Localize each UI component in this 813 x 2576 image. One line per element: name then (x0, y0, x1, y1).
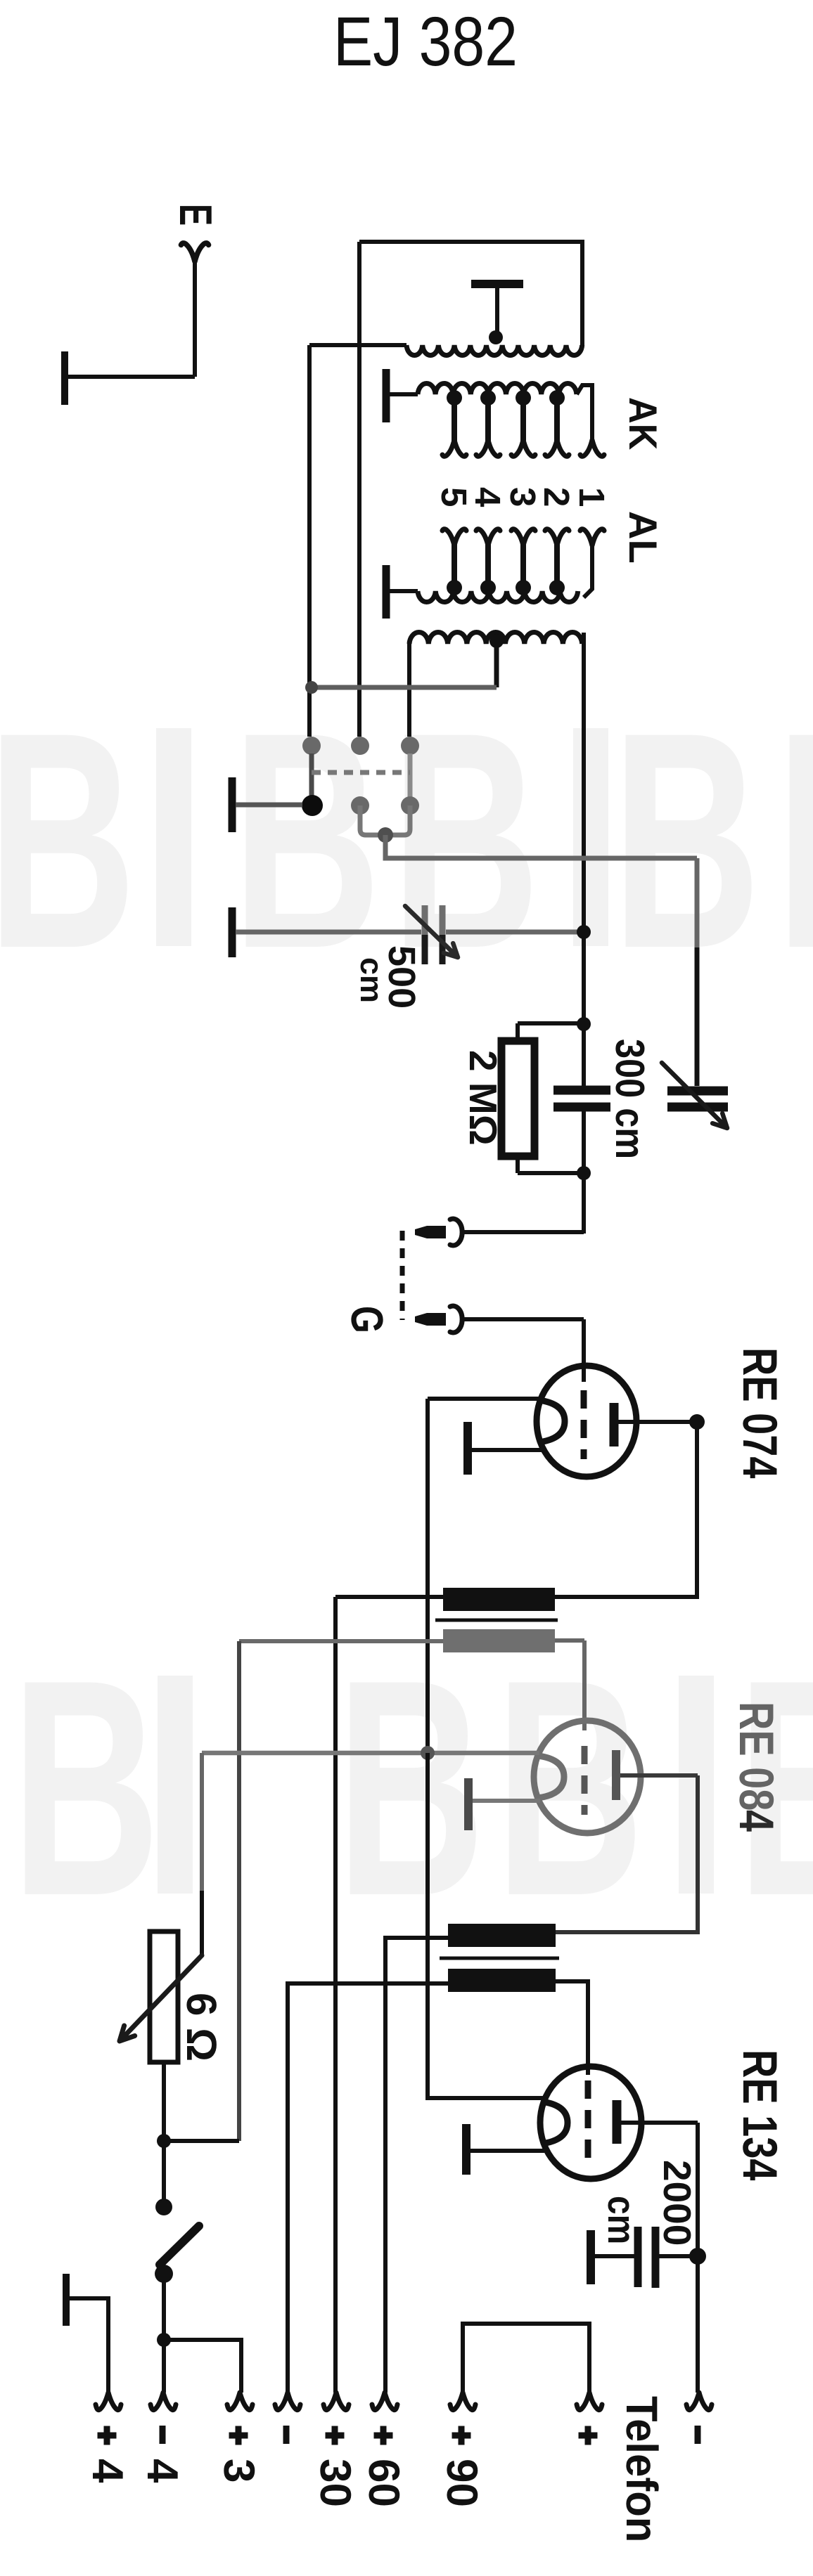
wire T2 s right (556, 1981, 588, 2075)
filament V3 (542, 2102, 568, 2144)
arrow C1 variable (405, 906, 458, 957)
terminal bar +4 (63, 2274, 70, 2326)
wire tap stem top 1 (485, 398, 491, 443)
svg-text:B: B (612, 668, 761, 1012)
capacitor C1 500cm plates (422, 905, 428, 935)
wire C4 right (659, 2254, 696, 2258)
wire socket1 down (309, 753, 314, 798)
svg-text:2 MΩ: 2 MΩ (461, 1050, 505, 1146)
resistor R1 2M box (501, 1041, 534, 1156)
wire anode V2 (620, 1773, 698, 1778)
wire switch out (385, 835, 697, 858)
coil L2 AK (418, 384, 577, 394)
terminal bar V1 (463, 1422, 472, 1475)
svg-text:cm: cm (354, 957, 390, 1003)
node tap0top (447, 390, 462, 406)
wire coil1 left (309, 343, 406, 347)
wire jack top lead (464, 1230, 584, 1234)
terminal socket 5 (324, 2393, 349, 2410)
wire tap stem bottom 1 (485, 543, 491, 585)
terminal bar A (471, 280, 523, 288)
wire jack bottom lead (464, 1317, 584, 1321)
svg-text:60: 60 (359, 2459, 408, 2507)
switch S1 contact top (155, 2199, 172, 2215)
wire coil3 right end (584, 543, 592, 597)
svg-text:RE 074: RE 074 (733, 1347, 787, 1478)
wire tap stem bottom 3 (554, 543, 560, 585)
svg-text:RE 08: RE 08 (729, 1702, 783, 1811)
node anode V1 (689, 1414, 705, 1430)
node tap3top (549, 390, 565, 406)
wire tap to switch (310, 685, 497, 690)
plug fork bottom 3 (545, 529, 569, 545)
node tap bottom 2 (516, 580, 531, 595)
wire socket3 to node (391, 805, 410, 835)
wire switch dashed (312, 770, 410, 775)
coil L3 AL (418, 591, 578, 602)
terminal socket 7 (450, 2393, 475, 2410)
node tune (577, 925, 591, 939)
wire filament bus upper (425, 1399, 430, 1753)
grid V2 dashes (582, 1746, 588, 1815)
wire grid top (518, 1021, 582, 1025)
socket 3 top (401, 737, 419, 755)
tube V2 RE084 envelope (534, 1721, 641, 1833)
svg-text:EJ 382: EJ 382 (333, 2, 518, 80)
wire loop top (359, 242, 582, 346)
label +4 plus (104, 2426, 110, 2445)
socket 1 bottom plugged (302, 795, 323, 816)
wire switch terminal (236, 803, 302, 808)
wire jack top (582, 1173, 586, 1234)
wire T1 s right (555, 1638, 584, 1643)
node tap2top (516, 390, 531, 406)
socket 2 bottom (351, 796, 369, 815)
wire bus left2 (357, 242, 361, 737)
filament V1 (539, 1400, 565, 1442)
wire anode V3 (621, 2121, 698, 2125)
wire grid RE084 (582, 1640, 587, 1730)
wire tune right (446, 930, 581, 935)
wire anode V1 (618, 1420, 697, 1424)
wire tune left (236, 930, 421, 935)
svg-text:1: 1 (572, 487, 612, 507)
wire R1 top (516, 1023, 520, 1041)
wire filament V3 bottom (470, 2149, 544, 2153)
node tap bottom 3 (549, 580, 565, 595)
svg-text:3: 3 (215, 2459, 263, 2483)
switch S1 contact bottom (155, 2265, 173, 2283)
terminal socket 2 (151, 2393, 176, 2410)
wire tap stem top 3 (554, 398, 560, 443)
terminal bar V2 (464, 1778, 473, 1830)
wire anode V1 down (695, 1422, 699, 1599)
plug fork top right (580, 440, 604, 456)
svg-text:4: 4 (729, 1810, 783, 1832)
wire AL stem (386, 589, 418, 593)
svg-text:Telefon: Telefon (617, 2396, 666, 2542)
plug pin top (415, 1226, 446, 1238)
wire tap stem bottom 2 (520, 543, 526, 585)
terminal bar E (61, 351, 68, 405)
wire coil4 right end (582, 633, 586, 1023)
svg-text:2000: 2000 (655, 2160, 699, 2246)
plug fork top 3 (545, 440, 569, 456)
plug fork top 2 (511, 440, 535, 456)
transformer T1 primary (443, 1588, 555, 1611)
transformer T2 secondary (448, 1969, 556, 1992)
transformer T2 core (440, 1957, 559, 1960)
transformer T2 primary (448, 1924, 556, 1947)
terminal socket 4 (275, 2393, 300, 2410)
plug fork bottom right (580, 529, 604, 545)
svg-text:B: B (336, 1615, 485, 1960)
node coil4 tap (489, 634, 504, 648)
wire to +3 (164, 2340, 241, 2393)
terminal bar switch (229, 777, 236, 832)
wire S1 down (162, 2280, 166, 2340)
wire grid bottom (518, 1171, 582, 1175)
wire minus4 down (162, 2340, 166, 2393)
terminal socket 1 (96, 2393, 121, 2410)
wire coil2 right end (577, 385, 592, 441)
wire R1 bottom (516, 1156, 520, 1173)
wire R2 bottom (162, 2062, 166, 2141)
wire anode V2 down (556, 1775, 698, 1932)
svg-text:AK: AK (621, 397, 665, 450)
wire terminal A stem (495, 288, 499, 337)
svg-text:cm: cm (600, 2196, 644, 2244)
wire C4 left (595, 2254, 634, 2258)
wire bus left1 (307, 345, 312, 737)
terminal bar C4 (587, 2230, 595, 2284)
capacitor C4 2000cm plates (634, 2227, 642, 2287)
node switch out (378, 827, 393, 843)
wire C3 link (582, 1024, 586, 1086)
svg-text:4: 4 (83, 2459, 132, 2483)
anode V1 bar (610, 1403, 619, 1446)
terminal socket 9 (686, 2393, 712, 2410)
transformer T1 core (435, 1619, 558, 1622)
plug fork bottom 1 (476, 529, 500, 545)
wire tap stem bottom 0 (452, 543, 457, 585)
node R2 out (157, 2134, 171, 2148)
coil L1 primary (406, 345, 582, 356)
socket 3 bottom (401, 796, 419, 815)
arrow R2 arm (120, 1955, 202, 2041)
node switch bus (305, 681, 318, 694)
antenna symbol (181, 243, 208, 261)
jack socket bottom (450, 1306, 462, 1333)
wire AK stem (386, 392, 418, 396)
jack socket top (450, 1219, 462, 1245)
node grid top (577, 1017, 591, 1031)
wire telefon bridge (463, 2324, 589, 2393)
terminal socket 6 (372, 2393, 397, 2410)
wire filament return (164, 2139, 239, 2143)
transformer T1 secondary (443, 1629, 555, 1652)
wire T1 p left (335, 1595, 443, 1599)
plug fork bottom 0 (442, 529, 466, 545)
svg-text:2: 2 (537, 487, 577, 507)
socket 2 top (351, 737, 369, 755)
wire filament bus (428, 1753, 543, 2098)
wire filament V2 top (202, 1751, 539, 1756)
wire antenna horizontal (65, 375, 195, 379)
svg-text:B: B (11, 1615, 160, 1960)
wire +4 (66, 2298, 108, 2393)
node C4 (689, 2248, 706, 2265)
switch S1 blade (160, 2226, 199, 2265)
wire T2 s left (288, 1983, 448, 2393)
terminal socket 3 (227, 2393, 252, 2410)
wire T1 s left (239, 1639, 443, 1643)
anode V3 bar (613, 2100, 622, 2144)
terminal bar AL (383, 565, 390, 619)
svg-text:4: 4 (138, 2459, 186, 2483)
svg-text:4: 4 (468, 487, 508, 507)
wire filament V1 top (428, 1397, 540, 1401)
label +30 plus (332, 2426, 338, 2445)
terminal bar V3 (462, 2124, 470, 2175)
tube V3 RE134 envelope (540, 2066, 641, 2179)
wire socket3 down (408, 753, 413, 798)
plug fork top 0 (442, 440, 466, 456)
node tap bottom 0 (447, 580, 462, 595)
grid V1 dashes (581, 1390, 587, 1459)
wire T1 s left down (237, 1641, 241, 2141)
plug fork top 1 (476, 440, 500, 456)
capacitor C2 feedback plates (667, 1087, 728, 1096)
wire anode V3 down (696, 2123, 700, 2393)
svg-text:6 Ω: 6 Ω (178, 1993, 225, 2062)
svg-text:G: G (342, 1306, 392, 1333)
plug fork bottom 2 (511, 529, 535, 545)
tube V1 RE074 envelope (537, 1366, 636, 1477)
svg-text:90: 90 (437, 2459, 486, 2507)
filament V2 (538, 1756, 564, 1798)
wire feedback (695, 858, 700, 947)
wire jack dashed (400, 1231, 405, 1320)
wire coil4 tap stem (494, 641, 499, 687)
label +60 plus (380, 2426, 387, 2445)
svg-text:300 cm: 300 cm (607, 1039, 653, 1159)
terminal bar tune (229, 907, 236, 957)
node coil1 tap (489, 330, 503, 344)
wire C3 down (582, 1111, 586, 1173)
node battery minus (157, 2333, 171, 2347)
label telefon minus (695, 2426, 701, 2444)
label - minus (283, 2426, 290, 2444)
wire T1 p left down (333, 1597, 338, 2393)
wire tap stem top 2 (520, 398, 526, 443)
svg-text:E: E (170, 204, 222, 226)
svg-text:B: B (495, 1615, 644, 1960)
wire coil4 left end (407, 641, 411, 737)
terminal bar AK (383, 369, 390, 422)
wire grid RE074 (582, 1319, 586, 1382)
grid V3 dashes (585, 2080, 591, 2159)
anode V2 bar (612, 1750, 620, 1800)
label -4 minus (160, 2426, 166, 2444)
wire antenna stem (193, 258, 197, 377)
svg-text:RE 134: RE 134 (733, 2050, 787, 2180)
plug pin bottom (415, 1313, 446, 1326)
wire T2 p left (385, 1938, 448, 2393)
node grid bottom (577, 1166, 591, 1180)
svg-text:B: B (0, 668, 136, 1012)
wire to switch S1 (162, 2141, 166, 2201)
svg-text:30: 30 (311, 2459, 359, 2507)
label telefon plus (585, 2426, 591, 2445)
resistor R2 6ohm box (150, 1931, 178, 2062)
node tap bottom 1 (480, 580, 496, 595)
label +3 plus (236, 2426, 242, 2445)
terminal socket 8 (577, 2393, 602, 2410)
wire socket2 to node (360, 805, 380, 835)
svg-text:AL: AL (621, 511, 665, 564)
capacitor C3 300cm plates (553, 1086, 610, 1095)
wire tap stem top 0 (452, 398, 457, 443)
svg-text:B: B (776, 668, 813, 1012)
wire T1 p right (555, 1595, 699, 1599)
wire filament V1 bottom (472, 1448, 542, 1452)
node tap1top (480, 390, 496, 406)
socket 1 top (302, 737, 321, 755)
label +90 plus (459, 2426, 465, 2445)
coil L4 (409, 633, 582, 644)
wire rheostat top (200, 1753, 204, 1891)
arrow C2 variable (662, 1063, 727, 1128)
node filament bus (421, 1746, 435, 1760)
wire filament V2 bottom (472, 1799, 540, 1803)
